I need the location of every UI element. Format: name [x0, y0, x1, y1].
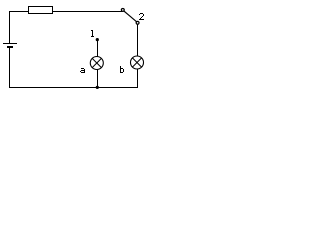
- lamp b (circle with X): [131, 56, 144, 69]
- switch contact 2 (open circle): [136, 21, 139, 24]
- switch pivot terminal (open circle): [121, 8, 124, 11]
- label b (bitmap letter): [120, 66, 124, 73]
- wire: left vertical below battery: [9, 48, 11, 88]
- resistor R (rectangle box): [29, 7, 53, 14]
- switch blade (open, resting on contact 2): [124, 11, 137, 22]
- battery long plate (+): [3, 43, 17, 45]
- wire: resistor to switch pivot: [53, 11, 122, 13]
- label 1 (bitmap digit): [91, 30, 94, 37]
- battery short plate (-): [7, 46, 13, 48]
- background: [0, 0, 149, 96]
- wire: bottom horizontal: [9, 87, 138, 89]
- wire: lamp b down to bottom wire: [137, 69, 139, 88]
- junction dot on bottom wire: [96, 86, 99, 89]
- wire: top-left horizontal (battery to resistor): [9, 11, 29, 13]
- label 2 (bitmap digit): [139, 13, 144, 20]
- label a (bitmap letter): [80, 68, 85, 73]
- node 1 terminal (filled dot): [96, 38, 99, 41]
- lamp a (circle with X): [90, 57, 103, 70]
- wire: lamp a down to bottom wire: [97, 69, 99, 88]
- wire: node 1 down to lamp a: [97, 40, 99, 57]
- wire: contact 2 down to lamp b: [137, 24, 139, 56]
- wire: left vertical above battery: [9, 11, 11, 44]
